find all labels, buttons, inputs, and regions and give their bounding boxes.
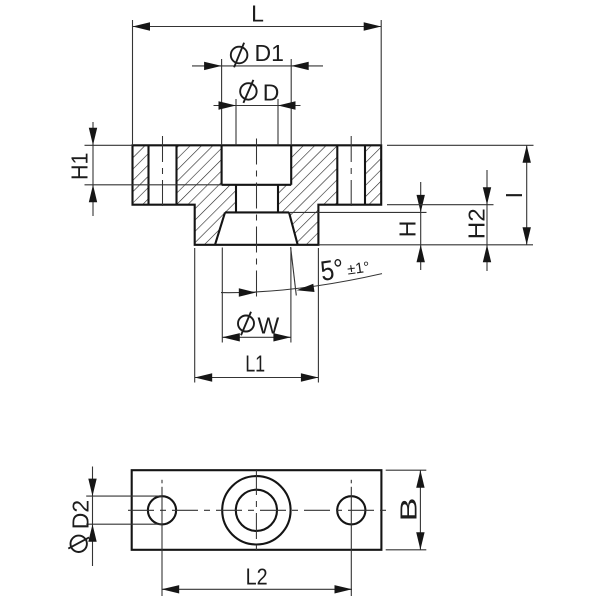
counterbore D1 right wall xyxy=(290,145,292,185)
svg-text:L1: L1 xyxy=(245,351,265,377)
center line left bolt hole xyxy=(162,136,164,212)
section hatch fill of T-shaped body xyxy=(133,145,382,245)
dimension W xyxy=(221,248,223,343)
right small hole xyxy=(337,496,365,524)
body outline (T profile) xyxy=(133,145,382,245)
dimension H1 xyxy=(85,144,133,146)
center line of part xyxy=(256,139,258,297)
horizontal center line xyxy=(128,509,389,511)
svg-text:L2: L2 xyxy=(246,564,268,590)
svg-text:L: L xyxy=(251,1,264,27)
dimension D2 xyxy=(86,495,162,497)
svg-text:B: B xyxy=(396,498,422,522)
dimension D xyxy=(235,99,237,145)
svg-text:5°: 5° xyxy=(319,253,346,287)
svg-text:W: W xyxy=(258,313,280,339)
left hole center line xyxy=(161,480,163,484)
dimension L1 xyxy=(194,248,196,383)
taper right side xyxy=(289,212,298,244)
dimension H2 xyxy=(387,204,494,206)
taper left side xyxy=(215,212,225,244)
right bolt hole wall xyxy=(364,145,366,204)
left small hole xyxy=(148,496,176,524)
left bolt hole wall xyxy=(175,145,177,204)
svg-text:I: I xyxy=(501,192,527,198)
counterbore bottom edge xyxy=(222,184,292,186)
dimension D1 xyxy=(221,59,223,145)
center line right bolt hole xyxy=(350,136,352,212)
dimension H xyxy=(289,211,427,213)
taper angle text xyxy=(319,249,372,287)
taper angle leader arc xyxy=(221,274,382,293)
big inner circle xyxy=(236,490,277,531)
hole D left wall xyxy=(235,185,237,213)
dimension L2 xyxy=(162,588,352,590)
svg-text:H1: H1 xyxy=(67,153,93,181)
dimension I xyxy=(387,144,534,146)
counterbore D1 left wall xyxy=(221,145,223,185)
hole D right wall xyxy=(277,185,279,213)
plate outline xyxy=(132,470,382,550)
vertical center line xyxy=(255,469,257,551)
dimension B xyxy=(386,469,427,471)
left bolt hole wall xyxy=(147,145,149,204)
right hole center line xyxy=(350,480,352,484)
svg-text:D1: D1 xyxy=(255,40,284,66)
right bolt hole wall xyxy=(336,145,338,204)
svg-text:D: D xyxy=(263,80,280,106)
big outer circle xyxy=(222,476,290,544)
svg-text:±1°: ±1° xyxy=(346,259,371,279)
svg-text:D2: D2 xyxy=(67,500,93,529)
svg-text:H2: H2 xyxy=(464,208,490,239)
svg-text:H: H xyxy=(395,221,421,238)
dimension L xyxy=(132,20,134,145)
taper angle 5 deg reference line xyxy=(291,247,297,296)
taper shoulder edge xyxy=(225,211,289,213)
